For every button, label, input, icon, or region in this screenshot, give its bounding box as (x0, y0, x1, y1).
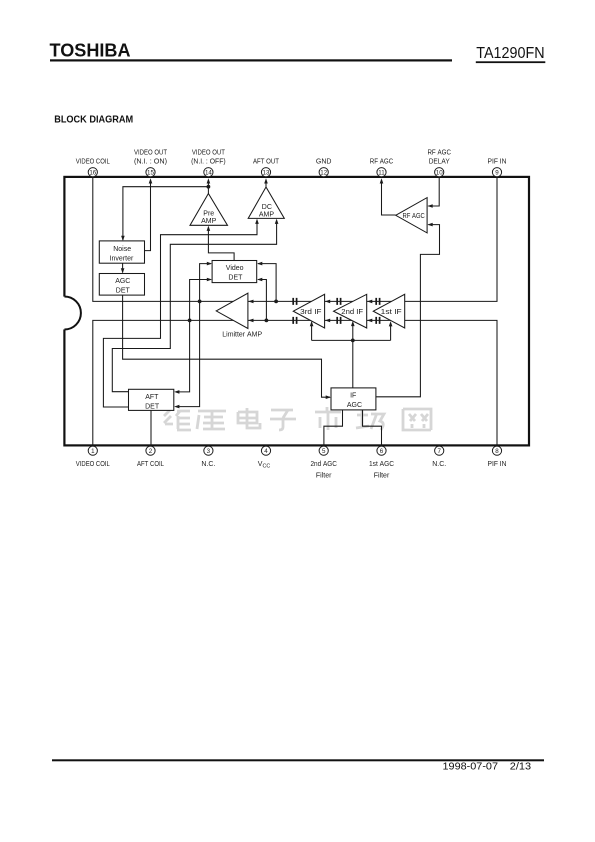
2nd IF input arrows (367, 300, 372, 323)
pin 12 circle (319, 168, 328, 177)
limiter AMP triangle (216, 293, 248, 328)
arrow up into dc amp right (275, 219, 279, 224)
wire agc to 2nd IF and from if agc top (352, 324, 354, 388)
svg-text:AGC: AGC (347, 402, 362, 409)
watermark (164, 407, 431, 430)
wire video det upper right input from top rail (258, 264, 276, 302)
dc amp triangle (248, 187, 284, 218)
node junction top rail x276.1 (274, 300, 278, 304)
limiter amp input arrows (248, 300, 253, 323)
wire video det lower right input from bottom rail (258, 280, 266, 321)
wire top IF rail (pin16 to pin9) (93, 177, 497, 301)
svg-text:VCC: VCC (258, 461, 271, 470)
wire bottom IF rail (pin1 to pin8) (93, 320, 497, 445)
svg-text:Filter: Filter (316, 473, 332, 480)
svg-text:PIF IN: PIF IN (488, 461, 507, 468)
pin 16 circle (88, 168, 97, 177)
wire video det lower left input / aft det upper right input (177, 280, 211, 392)
svg-text:7: 7 (437, 448, 441, 455)
arrow right into if agc (326, 395, 331, 399)
wire agc to 3rd IF (311, 324, 313, 340)
svg-text:N.C.: N.C. (432, 461, 446, 468)
if agc block (331, 388, 376, 410)
part number TA1290FN (476, 45, 544, 62)
2nd IF triangle (334, 294, 367, 328)
wire dc amp right input from aft det left upper (112, 222, 276, 392)
svg-text:(N.I. : OFF): (N.I. : OFF) (191, 158, 226, 165)
node junction pre amp top (207, 185, 211, 189)
svg-text:VIDEO OUT: VIDEO OUT (192, 150, 226, 157)
arrow down into noise inverter (121, 236, 125, 241)
svg-text:DC: DC (262, 204, 272, 211)
svg-text:GND: GND (316, 158, 332, 165)
svg-text:TA1290FN: TA1290FN (476, 45, 544, 62)
svg-text:5: 5 (322, 448, 326, 455)
pin1 index notch (64, 297, 81, 330)
capacitor C3a top rail (376, 298, 379, 305)
pin 1 circle (88, 446, 97, 455)
svg-text:AMP: AMP (201, 218, 217, 225)
svg-text:3: 3 (207, 448, 211, 455)
pin 14 circle (204, 168, 213, 177)
wire aft det output to pin2 (150, 410, 152, 445)
svg-text:VIDEO COIL: VIDEO COIL (76, 461, 110, 468)
video det block (212, 261, 257, 283)
pin 2 circle (146, 446, 155, 455)
svg-text:1998-07-07: 1998-07-07 (443, 762, 499, 773)
IC outer box (64, 177, 529, 446)
3rd IF input arrows (325, 300, 330, 323)
arrow left into aft det upper right (174, 390, 179, 394)
svg-text:AGC: AGC (115, 278, 130, 285)
wire agc to 1st IF (390, 324, 392, 340)
svg-text:11: 11 (378, 170, 385, 177)
capacitor C2a top rail (337, 298, 340, 305)
svg-text:(N.I. : ON): (N.I. : ON) (134, 158, 167, 165)
pin 3 circle (204, 446, 213, 455)
wire pin10 to rf agc upper input (428, 177, 439, 206)
node junction agc rail x352.8 (351, 339, 355, 343)
arrow up into pin13 (264, 178, 268, 183)
arrow up into 2nd IF (351, 321, 355, 326)
footer date and page (443, 762, 532, 773)
svg-text:Pre: Pre (203, 210, 214, 217)
arrow left into rf agc lower input (427, 223, 432, 227)
svg-text:2nd IF: 2nd IF (341, 309, 363, 316)
pin 6 circle (377, 446, 386, 455)
svg-text:4: 4 (264, 448, 268, 455)
svg-text:13: 13 (263, 170, 270, 177)
pin 8 circle (492, 446, 501, 455)
svg-text:Video: Video (226, 265, 244, 272)
arrow up into pin14 (207, 178, 211, 183)
svg-text:9: 9 (495, 170, 499, 177)
arrow right into video det upper left (207, 262, 212, 266)
svg-text:AFT OUT: AFT OUT (253, 158, 280, 165)
arrow up into pre amp (207, 226, 211, 231)
arrow left into video det upper right (257, 262, 262, 266)
arrow up into pin11 (380, 178, 384, 183)
svg-text:VIDEO OUT: VIDEO OUT (134, 150, 168, 157)
arrow up into 1st IF (389, 321, 393, 326)
node junction top rail x199.6 (198, 300, 202, 304)
capacitor C1a top rail (293, 298, 296, 305)
arrow up into 3rd IF (310, 321, 314, 326)
wire if agc to pin5 (324, 410, 343, 446)
pin 9 circle (492, 168, 501, 177)
svg-text:DELAY: DELAY (429, 158, 450, 165)
aft det block (129, 389, 174, 410)
wire dc amp left input from aft det left (103, 222, 257, 407)
svg-text:6: 6 (380, 448, 384, 455)
arrow left into video det lower right (257, 278, 262, 282)
svg-text:AFT: AFT (145, 394, 159, 401)
svg-text:N.C.: N.C. (201, 461, 215, 468)
1st IF triangle (373, 294, 404, 328)
pin 4 circle (261, 446, 270, 455)
arrow left into rf agc upper input (427, 204, 432, 208)
svg-text:Limitter AMP: Limitter AMP (222, 330, 262, 339)
pin 7 circle (435, 446, 444, 455)
footer rule (52, 759, 544, 761)
pin 5 circle (319, 446, 328, 455)
capacitor C1b bottom rail (293, 317, 296, 324)
svg-text:VIDEO COIL: VIDEO COIL (76, 158, 110, 165)
wire if agc output to rf agc lower input (376, 225, 440, 397)
svg-text:1st IF: 1st IF (381, 309, 402, 316)
header rule (50, 59, 452, 61)
arrow up into dc amp left (255, 219, 259, 224)
svg-text:AFT COIL: AFT COIL (137, 461, 164, 468)
svg-text:RF AGC: RF AGC (370, 158, 394, 165)
wire pre amp top to noise inverter input (123, 187, 208, 240)
svg-text:RF AGC: RF AGC (427, 150, 451, 157)
wire pin15 to noise inverter output (145, 182, 151, 251)
svg-text:1st AGC: 1st AGC (369, 461, 394, 468)
svg-text:Filter: Filter (374, 473, 390, 480)
wire rf agc output to pin11 (382, 182, 396, 216)
wire pin13 to dc amp apex (265, 182, 267, 188)
svg-text:PIF IN: PIF IN (488, 158, 507, 165)
svg-text:IF: IF (350, 393, 356, 400)
svg-text:12: 12 (320, 170, 327, 177)
wire if agc to pin6 (363, 410, 382, 446)
wire agc feedback rail to IF stages (312, 339, 391, 341)
svg-text:14: 14 (205, 170, 212, 177)
pin 11 circle (377, 168, 386, 177)
svg-text:RF AGC: RF AGC (403, 213, 425, 220)
node junction bottom rail x266.4 (265, 319, 269, 323)
notch erase (48, 297, 81, 330)
wire agc det output to if agc input (123, 295, 330, 397)
pin 10 circle (435, 168, 444, 177)
title BLOCK DIAGRAM (54, 115, 133, 126)
arrow down into agc det (121, 268, 125, 273)
svg-text:2/13: 2/13 (510, 762, 532, 773)
arrow left into aft det lower right (174, 405, 179, 409)
node junction bottom rail x189.6 (188, 319, 192, 323)
svg-text:2nd AGC: 2nd AGC (310, 461, 337, 468)
capacitor C3b bottom rail (376, 317, 379, 324)
svg-text:1: 1 (91, 448, 95, 455)
wire noise inverter to agc det (122, 263, 124, 272)
arrow right into video det lower left (207, 278, 212, 282)
agc det block (99, 274, 144, 296)
svg-text:BLOCK DIAGRAM: BLOCK DIAGRAM (54, 115, 133, 126)
pre amp triangle (190, 194, 228, 226)
svg-text:15: 15 (147, 170, 154, 177)
noise inverter block (99, 241, 144, 263)
capacitor C2b bottom rail (337, 317, 340, 324)
svg-text:TOSHIBA: TOSHIBA (50, 41, 131, 61)
svg-text:3rd IF: 3rd IF (300, 309, 321, 316)
pin 15 circle (146, 168, 155, 177)
svg-text:8: 8 (495, 448, 499, 455)
svg-text:DET: DET (145, 404, 160, 411)
svg-text:16: 16 (89, 170, 96, 177)
arrow up into pin15 (149, 178, 153, 183)
wire video det top output to pre amp input (208, 229, 234, 261)
wire video det upper left input / aft det lower right input (177, 264, 211, 407)
svg-text:2: 2 (149, 448, 153, 455)
pin 13 circle (261, 168, 270, 177)
part number underline (476, 61, 546, 63)
svg-text:DET: DET (116, 288, 131, 295)
svg-text:Inverter: Inverter (110, 255, 134, 262)
svg-text:AMP: AMP (259, 211, 275, 218)
svg-text:10: 10 (436, 170, 443, 177)
3rd IF triangle (293, 294, 324, 328)
header TOSHIBA logo (50, 41, 131, 61)
wire pin14 to pre amp apex (207, 182, 209, 194)
svg-text:DET: DET (228, 275, 243, 282)
svg-text:Noise: Noise (113, 246, 131, 253)
rf agc triangle (396, 198, 427, 233)
